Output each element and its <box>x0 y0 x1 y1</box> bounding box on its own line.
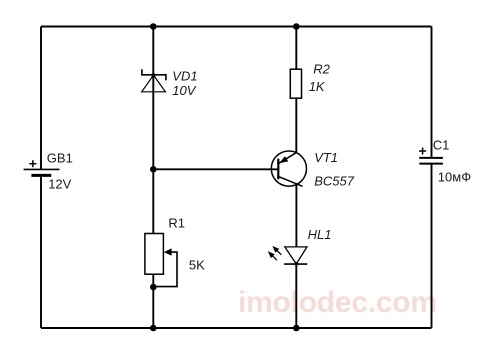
base bar <box>277 159 279 180</box>
battery GB1 <box>24 151 73 192</box>
transistor circle <box>271 151 306 186</box>
battery short plate (-) <box>31 174 51 177</box>
wire R2 bottom to transistor <box>295 98 297 152</box>
svg-text:imolodec.com: imolodec.com <box>238 286 437 319</box>
wire LED to bottom rail <box>295 264 297 328</box>
resistor R2 <box>290 61 330 98</box>
wire bottom rail <box>41 327 432 329</box>
svg-text:GB1: GB1 <box>47 151 73 166</box>
node base <box>150 166 157 173</box>
LED arrow 2 <box>271 254 277 260</box>
svg-text:1K: 1K <box>309 79 326 94</box>
node top rail / VD1 branch <box>150 23 157 30</box>
node at zener apex <box>151 73 155 77</box>
emitter arrow (PNP) <box>279 156 288 163</box>
capacitor top plate <box>419 157 443 159</box>
capacitor bottom plate <box>419 163 443 165</box>
svg-text:12V: 12V <box>48 177 71 192</box>
svg-text:VD1: VD1 <box>172 69 197 84</box>
capacitor plus sign <box>419 150 426 152</box>
wiper arrow <box>164 248 172 255</box>
LED arrow 1 <box>276 249 282 255</box>
wiper wire <box>153 252 177 287</box>
wire top rail <box>41 26 432 28</box>
battery long plate (+) <box>24 168 60 170</box>
svg-text:10V: 10V <box>172 83 196 98</box>
LED HL1 <box>268 227 332 264</box>
transistor VT1 <box>271 150 354 189</box>
node bottom rail / LED branch <box>293 325 300 332</box>
svg-text:VT1: VT1 <box>314 150 338 165</box>
zener triangle <box>142 75 166 92</box>
LED cathode bar <box>284 263 307 265</box>
emitter line <box>279 152 297 163</box>
node top rail / R2 branch <box>293 23 300 30</box>
wire base node to transistor <box>153 168 278 170</box>
node bottom rail / R1 branch <box>150 325 157 332</box>
svg-text:C1: C1 <box>433 137 450 152</box>
wire right vertical upper <box>431 27 433 158</box>
svg-text:R1: R1 <box>168 215 185 230</box>
collector line <box>278 176 302 186</box>
zener diode VD1 <box>142 69 198 99</box>
zener cathode bar with ticks <box>142 69 166 80</box>
wire R2 top <box>295 27 297 70</box>
node wiper return <box>150 284 157 291</box>
wire left vertical lower <box>40 175 42 328</box>
capacitor C1 <box>419 137 471 184</box>
svg-text:HL1: HL1 <box>308 227 332 242</box>
svg-text:R2: R2 <box>313 61 330 76</box>
svg-text:BC557: BC557 <box>314 174 355 189</box>
svg-text:5K: 5K <box>189 258 205 273</box>
battery plus sign <box>29 163 36 165</box>
svg-text:10мФ: 10мФ <box>438 169 471 184</box>
wire transistor to LED <box>295 184 297 247</box>
potentiometer R1 <box>145 215 205 286</box>
wire middle-left vertical below R1 <box>152 274 154 328</box>
wire left vertical upper <box>40 27 42 170</box>
wire middle-left vertical (VD1/R1 branch) <box>152 27 154 234</box>
wire right vertical lower <box>431 164 433 328</box>
node LED apex <box>295 262 299 266</box>
LED triangle <box>285 247 307 264</box>
